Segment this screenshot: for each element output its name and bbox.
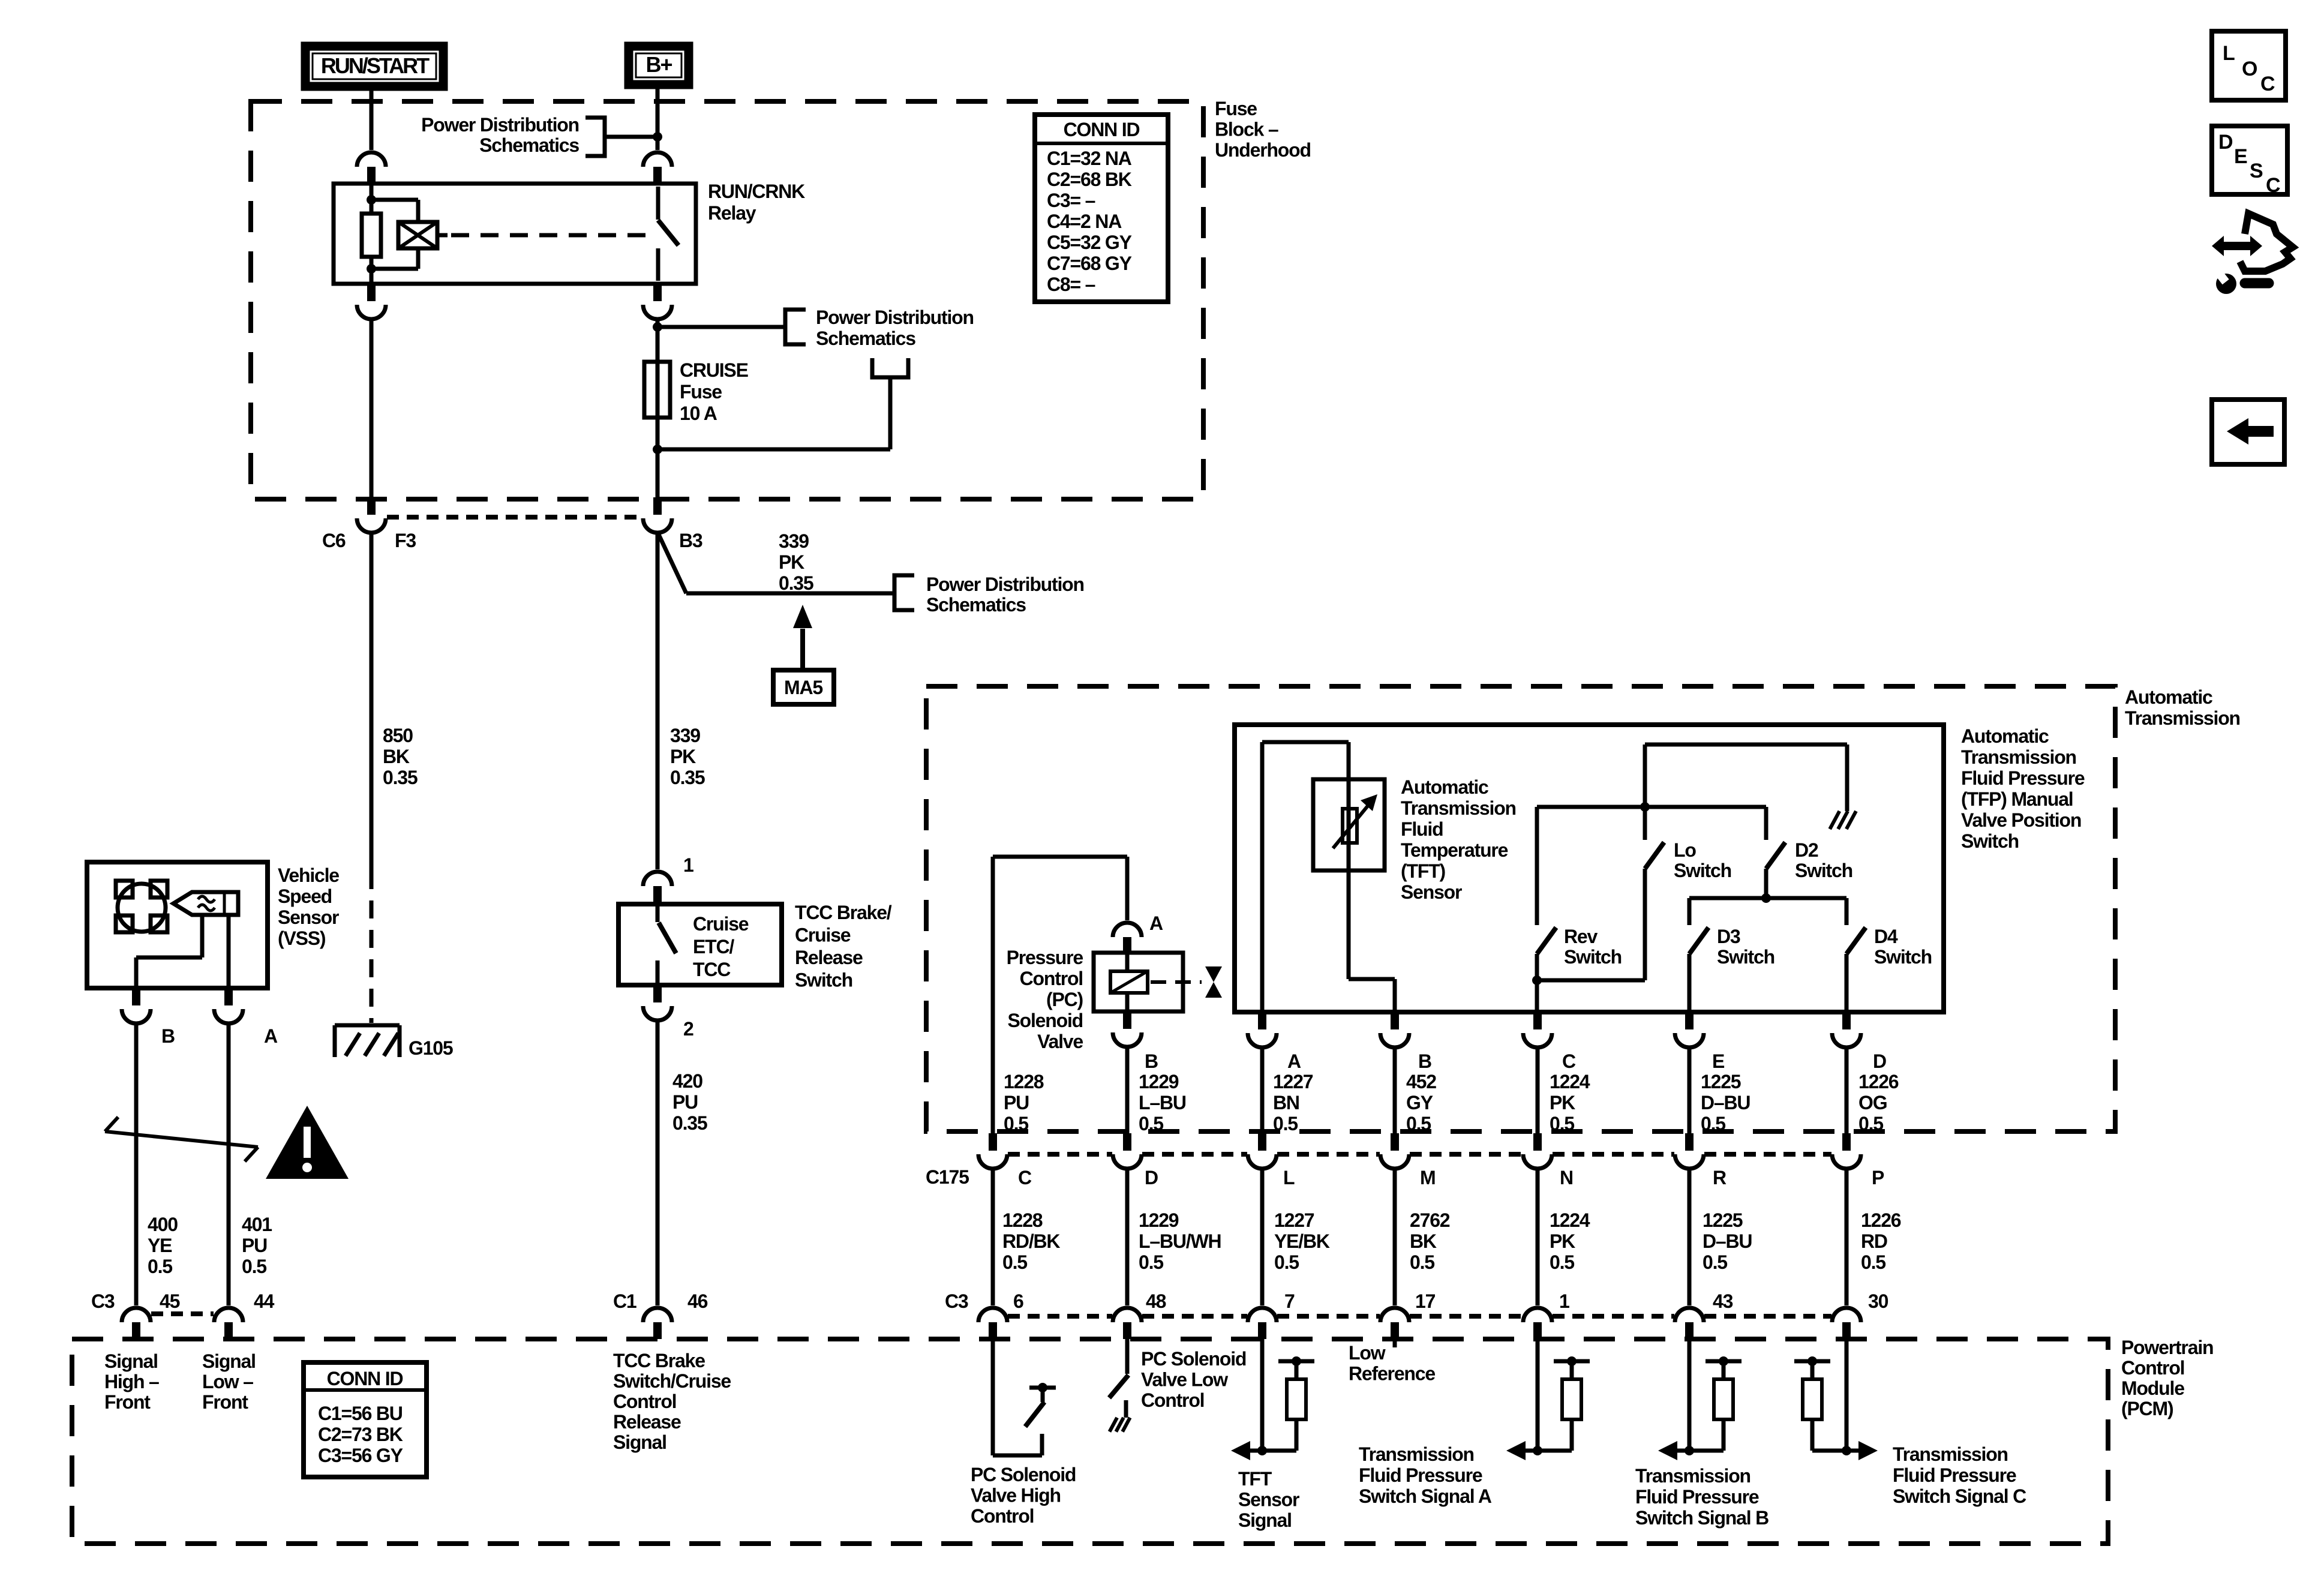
svg-text:L: L bbox=[2223, 42, 2235, 65]
svg-text:L–BU: L–BU bbox=[1139, 1092, 1186, 1113]
svg-text:Release: Release bbox=[613, 1411, 681, 1433]
svg-text:TFT: TFT bbox=[1238, 1468, 1272, 1490]
svg-text:1227: 1227 bbox=[1274, 1209, 1314, 1231]
svg-text:Fluid Pressure: Fluid Pressure bbox=[1961, 767, 2085, 789]
svg-text:0.35: 0.35 bbox=[670, 767, 705, 788]
svg-text:C8= –: C8= – bbox=[1047, 274, 1095, 295]
svg-text:Rev: Rev bbox=[1564, 926, 1598, 947]
svg-text:Power Distribution: Power Distribution bbox=[926, 574, 1084, 595]
svg-text:Schematics: Schematics bbox=[816, 328, 915, 349]
svg-text:0.5: 0.5 bbox=[1406, 1113, 1431, 1134]
svg-text:Transmission: Transmission bbox=[1893, 1443, 2008, 1465]
svg-text:E: E bbox=[2234, 145, 2247, 168]
svg-text:0.5: 0.5 bbox=[1274, 1251, 1299, 1273]
svg-text:Transmission: Transmission bbox=[1401, 797, 1516, 819]
svg-text:Transmission: Transmission bbox=[2125, 707, 2240, 729]
svg-text:1226: 1226 bbox=[1861, 1209, 1901, 1231]
svg-text:Fuse: Fuse bbox=[680, 381, 722, 403]
svg-text:0.5: 0.5 bbox=[1858, 1113, 1883, 1134]
svg-text:Switch: Switch bbox=[1674, 860, 1731, 881]
svg-text:401: 401 bbox=[242, 1214, 272, 1235]
svg-text:0.5: 0.5 bbox=[1002, 1251, 1027, 1273]
svg-text:1226: 1226 bbox=[1858, 1071, 1899, 1092]
svg-text:PK: PK bbox=[670, 746, 696, 767]
svg-text:Control: Control bbox=[2121, 1357, 2184, 1379]
svg-text:C2=73 BK: C2=73 BK bbox=[318, 1424, 403, 1445]
svg-text:1224: 1224 bbox=[1550, 1071, 1590, 1092]
svg-text:0.5: 0.5 bbox=[1550, 1251, 1574, 1273]
svg-text:C5=32 GY: C5=32 GY bbox=[1047, 232, 1132, 253]
svg-text:1229: 1229 bbox=[1139, 1071, 1179, 1092]
svg-text:44: 44 bbox=[254, 1290, 275, 1312]
svg-text:Fuse: Fuse bbox=[1215, 98, 1257, 119]
svg-text:C3: C3 bbox=[945, 1290, 968, 1312]
svg-text:L–BU/WH: L–BU/WH bbox=[1139, 1230, 1221, 1252]
svg-text:Temperature: Temperature bbox=[1401, 839, 1508, 861]
svg-text:1228: 1228 bbox=[1002, 1209, 1043, 1231]
svg-text:E: E bbox=[1712, 1050, 1725, 1072]
svg-text:Reference: Reference bbox=[1349, 1363, 1435, 1385]
svg-text:Control: Control bbox=[971, 1505, 1034, 1527]
svg-text:Module: Module bbox=[2121, 1377, 2184, 1399]
svg-text:A: A bbox=[1287, 1050, 1301, 1072]
svg-text:0.5: 0.5 bbox=[1701, 1113, 1725, 1134]
svg-text:MA5: MA5 bbox=[784, 677, 822, 698]
svg-text:850: 850 bbox=[383, 725, 413, 746]
svg-text:D–BU: D–BU bbox=[1703, 1230, 1752, 1252]
svg-text:C7=68 GY: C7=68 GY bbox=[1047, 253, 1132, 274]
svg-text:Low: Low bbox=[1349, 1342, 1386, 1364]
svg-text:Valve Position: Valve Position bbox=[1961, 809, 2081, 831]
svg-text:7: 7 bbox=[1284, 1290, 1295, 1312]
svg-text:Control: Control bbox=[1141, 1389, 1204, 1411]
svg-text:1: 1 bbox=[1559, 1290, 1569, 1312]
svg-text:Switch: Switch bbox=[1564, 946, 1622, 968]
svg-text:RUN/CRNK: RUN/CRNK bbox=[708, 181, 805, 202]
svg-text:CONN ID: CONN ID bbox=[1064, 119, 1140, 140]
svg-text:(TFP) Manual: (TFP) Manual bbox=[1961, 788, 2073, 810]
svg-text:339: 339 bbox=[779, 530, 809, 552]
svg-text:Cruise: Cruise bbox=[693, 913, 749, 935]
svg-text:0.5: 0.5 bbox=[1703, 1251, 1727, 1273]
svg-text:1228: 1228 bbox=[1004, 1071, 1044, 1092]
svg-text:Switch: Switch bbox=[1717, 946, 1774, 968]
svg-text:Fluid Pressure: Fluid Pressure bbox=[1359, 1464, 1482, 1486]
svg-text:48: 48 bbox=[1146, 1290, 1166, 1312]
svg-text:D: D bbox=[1145, 1167, 1158, 1188]
svg-text:BK: BK bbox=[1410, 1230, 1437, 1252]
svg-text:2: 2 bbox=[683, 1018, 693, 1040]
svg-text:43: 43 bbox=[1713, 1290, 1733, 1312]
svg-text:Valve High: Valve High bbox=[971, 1485, 1061, 1506]
svg-text:Valve: Valve bbox=[1037, 1031, 1083, 1052]
svg-text:0.5: 0.5 bbox=[1273, 1113, 1298, 1134]
svg-text:Signal: Signal bbox=[104, 1350, 158, 1372]
svg-text:Fluid: Fluid bbox=[1401, 818, 1443, 840]
svg-text:Fluid Pressure: Fluid Pressure bbox=[1635, 1486, 1759, 1508]
svg-text:(TFT): (TFT) bbox=[1401, 860, 1445, 882]
svg-text:Speed: Speed bbox=[278, 885, 332, 907]
svg-text:Switch Signal C: Switch Signal C bbox=[1893, 1485, 2026, 1507]
svg-text:PC Solenoid: PC Solenoid bbox=[1141, 1348, 1246, 1370]
svg-text:D: D bbox=[2218, 131, 2233, 154]
svg-text:0.35: 0.35 bbox=[779, 572, 813, 594]
svg-text:Front: Front bbox=[104, 1391, 151, 1413]
svg-text:Signal: Signal bbox=[202, 1350, 256, 1372]
svg-text:N: N bbox=[1560, 1167, 1573, 1188]
svg-text:CONN ID: CONN ID bbox=[327, 1368, 403, 1389]
svg-text:0.5: 0.5 bbox=[1139, 1113, 1163, 1134]
svg-text:OG: OG bbox=[1858, 1092, 1887, 1113]
svg-text:Sensor: Sensor bbox=[278, 906, 339, 928]
svg-text:L: L bbox=[1283, 1167, 1295, 1188]
svg-text:RUN/START: RUN/START bbox=[321, 53, 430, 78]
svg-text:0.5: 0.5 bbox=[1004, 1113, 1028, 1134]
svg-text:Switch: Switch bbox=[795, 969, 852, 991]
svg-text:Pressure: Pressure bbox=[1007, 947, 1083, 968]
svg-text:D4: D4 bbox=[1874, 926, 1898, 947]
svg-text:Signal: Signal bbox=[613, 1431, 666, 1453]
svg-text:RD/BK: RD/BK bbox=[1002, 1230, 1060, 1252]
svg-text:Solenoid: Solenoid bbox=[1007, 1010, 1083, 1031]
svg-text:B: B bbox=[1418, 1050, 1431, 1072]
svg-text:C4=2 NA: C4=2 NA bbox=[1047, 211, 1122, 232]
svg-text:1229: 1229 bbox=[1139, 1209, 1179, 1231]
svg-text:45: 45 bbox=[160, 1290, 180, 1312]
svg-text:C2=68 BK: C2=68 BK bbox=[1047, 169, 1132, 190]
svg-text:TCC Brake/: TCC Brake/ bbox=[795, 902, 892, 923]
svg-text:C1: C1 bbox=[613, 1290, 636, 1312]
svg-text:Fluid Pressure: Fluid Pressure bbox=[1893, 1464, 2016, 1486]
svg-text:Switch: Switch bbox=[1795, 860, 1852, 881]
svg-text:Signal: Signal bbox=[1238, 1509, 1292, 1531]
svg-text:G105: G105 bbox=[409, 1037, 453, 1059]
svg-text:Power Distribution: Power Distribution bbox=[421, 114, 579, 136]
svg-text:RD: RD bbox=[1861, 1230, 1887, 1252]
svg-text:1224: 1224 bbox=[1550, 1209, 1590, 1231]
svg-text:Switch Signal B: Switch Signal B bbox=[1635, 1507, 1768, 1529]
svg-text:Powertrain: Powertrain bbox=[2121, 1337, 2213, 1358]
svg-text:Control: Control bbox=[1020, 968, 1083, 989]
svg-text:0.5: 0.5 bbox=[242, 1256, 266, 1277]
svg-text:C: C bbox=[2260, 73, 2275, 95]
svg-text:0.35: 0.35 bbox=[672, 1112, 707, 1134]
svg-text:D–BU: D–BU bbox=[1701, 1092, 1750, 1113]
svg-text:R: R bbox=[1713, 1167, 1727, 1188]
svg-text:Automatic: Automatic bbox=[1401, 776, 1488, 798]
svg-text:Cruise: Cruise bbox=[795, 924, 851, 946]
svg-text:0.5: 0.5 bbox=[1861, 1251, 1885, 1273]
svg-text:Block –: Block – bbox=[1215, 119, 1278, 140]
svg-text:339: 339 bbox=[670, 725, 700, 746]
svg-text:TCC: TCC bbox=[693, 959, 731, 980]
svg-text:Transmission: Transmission bbox=[1359, 1443, 1474, 1465]
svg-text:B: B bbox=[1145, 1050, 1158, 1072]
svg-text:C: C bbox=[2266, 174, 2280, 197]
svg-text:Switch: Switch bbox=[1961, 830, 2019, 852]
svg-text:Transmission: Transmission bbox=[1961, 746, 2076, 768]
svg-text:D: D bbox=[1873, 1050, 1886, 1072]
svg-text:0.5: 0.5 bbox=[1550, 1113, 1574, 1134]
svg-text:C3=56 GY: C3=56 GY bbox=[318, 1445, 403, 1466]
svg-text:Relay: Relay bbox=[708, 202, 756, 224]
svg-text:PU: PU bbox=[672, 1091, 698, 1113]
svg-text:(PCM): (PCM) bbox=[2121, 1398, 2173, 1419]
svg-text:O: O bbox=[2242, 58, 2257, 80]
svg-text:Schematics: Schematics bbox=[926, 594, 1026, 616]
svg-text:2762: 2762 bbox=[1410, 1209, 1450, 1231]
svg-text:Switch/Cruise: Switch/Cruise bbox=[613, 1370, 731, 1392]
svg-text:C1=32 NA: C1=32 NA bbox=[1047, 148, 1132, 169]
svg-text:46: 46 bbox=[687, 1290, 708, 1312]
svg-text:Lo: Lo bbox=[1674, 839, 1696, 861]
svg-text:BN: BN bbox=[1273, 1092, 1299, 1113]
svg-text:(VSS): (VSS) bbox=[278, 927, 326, 949]
svg-text:PK: PK bbox=[1550, 1230, 1575, 1252]
svg-text:Sensor: Sensor bbox=[1401, 881, 1462, 903]
svg-text:C6: C6 bbox=[322, 530, 346, 551]
svg-text:PU: PU bbox=[242, 1235, 267, 1256]
svg-text:0.5: 0.5 bbox=[148, 1256, 172, 1277]
svg-text:Automatic: Automatic bbox=[1961, 725, 2049, 747]
svg-text:Schematics: Schematics bbox=[479, 134, 579, 156]
svg-text:D3: D3 bbox=[1717, 926, 1740, 947]
svg-text:Switch: Switch bbox=[1874, 946, 1932, 968]
svg-text:30: 30 bbox=[1868, 1290, 1888, 1312]
svg-text:B3: B3 bbox=[679, 530, 702, 551]
svg-text:ETC/: ETC/ bbox=[693, 936, 734, 957]
svg-text:C3: C3 bbox=[91, 1290, 115, 1312]
svg-text:0.5: 0.5 bbox=[1410, 1251, 1434, 1273]
svg-text:Control: Control bbox=[613, 1391, 676, 1412]
svg-text:Power Distribution: Power Distribution bbox=[816, 307, 974, 328]
svg-text:C: C bbox=[1018, 1167, 1032, 1188]
svg-text:420: 420 bbox=[672, 1070, 702, 1092]
svg-text:1225: 1225 bbox=[1703, 1209, 1743, 1231]
svg-text:PU: PU bbox=[1004, 1092, 1029, 1113]
svg-text:Automatic: Automatic bbox=[2125, 686, 2212, 708]
svg-text:F3: F3 bbox=[395, 530, 416, 551]
svg-text:C1=56 BU: C1=56 BU bbox=[318, 1403, 403, 1424]
svg-text:CRUISE: CRUISE bbox=[680, 359, 749, 381]
svg-text:6: 6 bbox=[1013, 1290, 1023, 1312]
svg-text:Release: Release bbox=[795, 947, 863, 968]
svg-text:17: 17 bbox=[1415, 1290, 1436, 1312]
svg-text:BK: BK bbox=[383, 746, 410, 767]
svg-text:C3= –: C3= – bbox=[1047, 190, 1095, 211]
svg-text:C: C bbox=[1562, 1050, 1576, 1072]
svg-text:A: A bbox=[1149, 912, 1163, 934]
svg-text:10 A: 10 A bbox=[680, 403, 717, 424]
svg-text:Underhood: Underhood bbox=[1215, 139, 1311, 161]
svg-text:1: 1 bbox=[683, 854, 693, 876]
svg-text:Front: Front bbox=[202, 1391, 248, 1413]
svg-text:0.5: 0.5 bbox=[1139, 1251, 1163, 1273]
svg-text:M: M bbox=[1420, 1167, 1435, 1188]
svg-text:Switch Signal A: Switch Signal A bbox=[1359, 1485, 1492, 1507]
svg-text:A: A bbox=[264, 1025, 278, 1047]
svg-text:452: 452 bbox=[1406, 1071, 1436, 1092]
svg-text:P: P bbox=[1872, 1167, 1884, 1188]
svg-text:YE/BK: YE/BK bbox=[1274, 1230, 1330, 1252]
svg-text:PK: PK bbox=[779, 551, 804, 573]
svg-text:B: B bbox=[161, 1025, 175, 1047]
svg-text:Sensor: Sensor bbox=[1238, 1489, 1299, 1511]
svg-text:B+: B+ bbox=[645, 52, 672, 77]
svg-text:TCC Brake: TCC Brake bbox=[613, 1350, 705, 1371]
svg-text:GY: GY bbox=[1406, 1092, 1433, 1113]
svg-text:Vehicle: Vehicle bbox=[278, 864, 339, 886]
svg-text:C175: C175 bbox=[926, 1166, 969, 1188]
svg-text:High –: High – bbox=[104, 1371, 159, 1392]
svg-text:PC Solenoid: PC Solenoid bbox=[971, 1464, 1076, 1485]
svg-text:400: 400 bbox=[148, 1214, 178, 1235]
svg-text:1225: 1225 bbox=[1701, 1071, 1741, 1092]
svg-text:S: S bbox=[2250, 160, 2263, 182]
svg-text:D2: D2 bbox=[1795, 839, 1818, 861]
svg-text:YE: YE bbox=[148, 1235, 172, 1256]
svg-text:Valve Low: Valve Low bbox=[1141, 1369, 1228, 1391]
svg-text:PK: PK bbox=[1550, 1092, 1575, 1113]
svg-text:0.35: 0.35 bbox=[383, 767, 418, 788]
svg-text:1227: 1227 bbox=[1273, 1071, 1313, 1092]
svg-text:Low –: Low – bbox=[202, 1371, 253, 1392]
svg-text:Transmission: Transmission bbox=[1635, 1465, 1750, 1487]
svg-text:(PC): (PC) bbox=[1046, 989, 1083, 1010]
